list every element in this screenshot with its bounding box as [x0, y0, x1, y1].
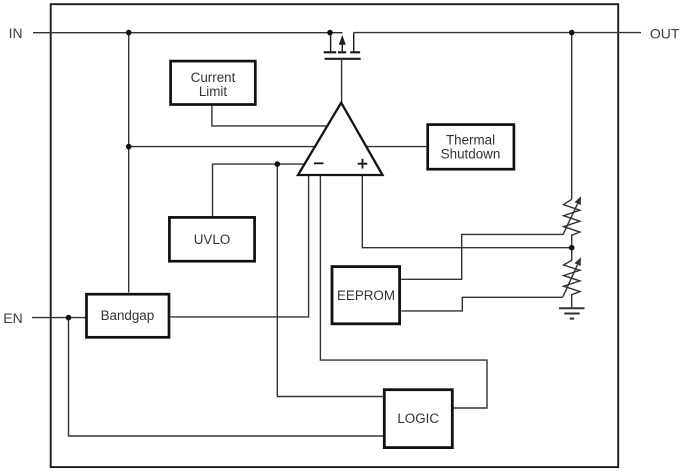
- wire amp noninverting input to feedback node: [362, 175, 571, 248]
- svg-text:UVLO: UVLO: [194, 232, 230, 247]
- svg-text:IN: IN: [9, 25, 23, 41]
- node junction on IN rail at x128.7: [126, 30, 132, 36]
- wire EN rail down to LOGIC left input: [69, 318, 386, 436]
- box EEPROM: [332, 267, 400, 324]
- node feedback divider midpoint: [569, 245, 575, 251]
- node junction on OUT rail: [569, 30, 575, 36]
- node A junction on inverting input: [275, 161, 281, 167]
- wire node A down to LOGIC left input: [277, 164, 385, 396]
- svg-text:Shutdown: Shutdown: [441, 147, 501, 162]
- wire EEPROM upper output to R1 wiper: [401, 234, 563, 279]
- wire Q1 gate to amp output: [341, 60, 343, 103]
- wire OUT rail down to R1: [571, 33, 573, 200]
- box Thermal Shutdown: [428, 125, 514, 170]
- svg-text:OUT: OUT: [650, 26, 680, 42]
- wire IN rail to amp and Thermal Shutdown: [129, 146, 427, 148]
- svg-text:Current: Current: [191, 70, 236, 85]
- ground: [559, 308, 585, 318]
- node junction at Q1 source: [327, 30, 333, 36]
- op-amp U1 error amplifier: [298, 103, 383, 175]
- wire UVLO to amp inverting input: [213, 164, 308, 216]
- wire amp base to LOGIC right input: [320, 175, 487, 408]
- box UVLO: [169, 217, 254, 261]
- wire IN input lead: [33, 32, 343, 34]
- node junction on EN lead: [66, 315, 72, 321]
- wire OUT lead: [354, 32, 641, 34]
- wire Bandgap output up to amp base: [171, 175, 309, 317]
- svg-text:EN: EN: [3, 310, 22, 326]
- wire EEPROM lower output to R2 wiper: [401, 297, 563, 311]
- wire IN rail down to Bandgap top: [128, 33, 130, 293]
- svg-text:LOGIC: LOGIC: [397, 411, 439, 426]
- wire EN input lead: [32, 317, 86, 319]
- svg-text:EEPROM: EEPROM: [337, 288, 395, 303]
- resistor R1 adjustable top feedback: [563, 196, 581, 248]
- box Bandgap: [87, 294, 170, 337]
- svg-text:Thermal: Thermal: [446, 133, 495, 148]
- box LOGIC: [384, 390, 452, 448]
- resistor R2 adjustable bottom feedback: [563, 248, 581, 309]
- transistor Q1 pass PMOS: [324, 33, 361, 59]
- node junction IN rail to amp line: [126, 144, 132, 150]
- wire Current Limit output to amp: [212, 106, 332, 126]
- svg-text:Limit: Limit: [199, 84, 228, 99]
- box Current Limit: [171, 61, 256, 104]
- svg-text:Bandgap: Bandgap: [101, 308, 155, 323]
